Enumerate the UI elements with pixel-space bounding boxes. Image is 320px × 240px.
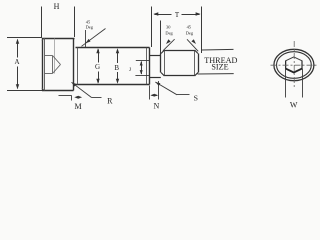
svg-text:M: M [74,102,81,111]
svg-text:G: G [95,63,100,71]
svg-text:Deg: Deg [186,31,194,36]
svg-text:H: H [54,2,60,11]
svg-text:N: N [154,102,160,111]
svg-text:SIZE: SIZE [211,63,228,72]
svg-text:B: B [114,64,119,72]
svg-text:S: S [194,94,198,103]
svg-text:R: R [107,97,113,106]
svg-text:Deg: Deg [86,25,94,30]
svg-text:T: T [175,11,180,19]
svg-text:A: A [14,58,19,66]
svg-text:Deg: Deg [165,31,173,36]
svg-text:W: W [290,100,298,109]
